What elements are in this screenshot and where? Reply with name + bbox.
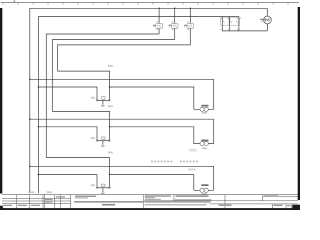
wire motor bottom lead <box>266 24 268 31</box>
coil box K3 <box>102 184 105 187</box>
column tick marks on top border <box>3 2 288 4</box>
terminal X mark left K2 <box>96 140 98 142</box>
fuse-switch F2 body <box>171 24 178 29</box>
wire rung K2 bottom right segment <box>110 127 194 144</box>
label wire number above corner K1 <box>108 65 113 67</box>
label below stub K1 <box>101 105 104 107</box>
circuit breaker Q1 pole body left <box>221 17 230 25</box>
wire F3 bottom lead <box>189 28 191 45</box>
lamp wire K3 <box>194 189 214 191</box>
title block row lines left <box>2 197 71 199</box>
fuse-switch F1 body <box>156 24 163 29</box>
terminal X mark right K1 <box>109 99 111 101</box>
node junction dot V1/K3 <box>29 166 31 168</box>
wire vertical V2 (from L2 corner down) <box>37 17 39 194</box>
terminal X mark right K3 <box>109 187 111 189</box>
node junction dot on L1 at F1 <box>158 8 160 10</box>
wire rung K1 middle <box>30 79 214 109</box>
node junction dot coil drop/K1 <box>109 86 111 88</box>
lamp HK2 circle b <box>204 142 208 146</box>
label -M1 <box>260 19 265 20</box>
wire Q1 pole 3 vertical <box>238 17 240 31</box>
wire motor feed bottom rail <box>222 30 267 32</box>
terminal X mark right K2 <box>109 140 111 142</box>
label below lamp K1 <box>202 112 207 113</box>
faint destination labels at V1 V2 ends <box>28 192 34 193</box>
label left of terminal K1 <box>91 97 95 99</box>
wire bus L1 top horizontal <box>30 7 267 9</box>
title block column lines left <box>16 195 18 209</box>
label below stub K2 <box>101 145 104 147</box>
lamp HK1 circle b <box>204 107 208 111</box>
wire rung K1 top (coil feed) <box>58 71 110 100</box>
lamp HK3 circle b <box>204 188 208 192</box>
wire rung K3 top (coil feed) <box>46 158 109 188</box>
wire rung K3 bottom right segment <box>110 175 194 191</box>
pin number specks F3 <box>188 21 189 22</box>
ground stub K3 <box>102 188 104 192</box>
coil box K2 <box>102 137 105 140</box>
node junction dot V2/K2 <box>38 126 40 128</box>
sheet number marker <box>14 0 16 2</box>
label left of terminal K3 <box>91 184 95 186</box>
fuse-switch F1 drop from L1 <box>158 8 160 23</box>
wire rung K2 bottom left segment <box>38 127 97 141</box>
ground stub K1 <box>102 100 104 104</box>
faint note text row mid sheet <box>151 161 198 163</box>
node junction dot on L1 at F2 <box>174 8 176 10</box>
label F1 designator <box>153 25 156 27</box>
pin labels 1 3 5 <box>220 18 221 19</box>
motor M1 circle <box>264 16 272 24</box>
wire rung K2 middle <box>30 119 214 143</box>
wire rung K3 bottom left segment <box>38 175 97 188</box>
label F3 designator <box>184 25 187 27</box>
wire Q1 pole 1 vertical <box>221 17 223 31</box>
wire vertical V4 (feeds rung 2) <box>52 40 174 112</box>
bottom black scan band <box>0 208 300 210</box>
wire F1 bottom lead <box>158 28 160 34</box>
label below lamp K3 <box>202 193 207 194</box>
terminal rail K2 <box>97 140 110 142</box>
label -HK1 above lamp <box>201 105 208 107</box>
label wire number above corner K3 <box>108 152 113 154</box>
coil box K1 <box>102 97 105 100</box>
wire rung K1 bottom left segment <box>38 87 97 100</box>
fuse-switch F3 drop from L1 <box>189 8 191 23</box>
circuit breaker Q1 pole body right <box>229 17 239 25</box>
title block vertical mid <box>143 195 145 209</box>
wire vertical V3 (feeds rung 3) <box>46 34 159 158</box>
node junction dot coil drop/K3 <box>109 174 111 176</box>
terminal X mark left K1 <box>96 99 98 101</box>
node junction dot V2/K3 <box>38 174 40 176</box>
fuse-switch F3 body <box>187 24 194 29</box>
left edge black scan bar <box>0 8 2 194</box>
terminal rail K3 <box>97 187 110 189</box>
lamp wire K2 <box>194 143 214 145</box>
lamp HK2 circle a <box>200 142 204 146</box>
label -HK3 above lamp <box>201 184 208 186</box>
pin labels 2 4 6 <box>220 29 221 30</box>
fuse-switch F2 drop from L1 <box>174 8 176 23</box>
wire vertical V1 (from L1 corner down to title block) <box>29 8 31 193</box>
Q1 contact marks <box>223 21 238 23</box>
fuse-switch F3 inner mark <box>189 25 192 28</box>
node junction dot coil drop/K2 <box>109 126 111 128</box>
title block small boxes bottom right <box>271 204 273 208</box>
wire Q1 pole 2 vertical <box>229 17 231 31</box>
title block row line right <box>263 195 298 197</box>
title block text blobs <box>45 199 53 200</box>
motor M1 letter M <box>266 19 269 22</box>
node junction dot V2/K1 <box>38 86 40 88</box>
lamp HK1 circle a <box>200 107 204 111</box>
ground stub K2 <box>102 141 104 145</box>
node junction dot on L1 at F3 <box>190 8 192 10</box>
pin number specks F1 <box>157 21 158 22</box>
terminal rail K1 <box>97 99 110 101</box>
fuse-switch F1 inner mark <box>158 25 161 28</box>
wire F2 bottom lead <box>174 28 176 39</box>
right edge black scan bar <box>298 7 300 200</box>
wire motor drop from L1 <box>266 8 268 16</box>
node junction dot V1/K2 <box>29 118 31 120</box>
sheet top border line <box>1 1 299 3</box>
wire rung K2 top (coil feed) <box>52 111 109 140</box>
title block outer top line <box>2 194 298 196</box>
fuse-switch F2 inner mark <box>173 25 176 28</box>
label -HK2 above lamp <box>201 140 208 142</box>
wire rung K1 bottom right segment <box>110 87 194 109</box>
label wire number above corner K2 <box>108 105 113 107</box>
faint wire label rung3 <box>188 169 196 171</box>
node junction dot V1/K1 <box>29 79 31 81</box>
lamp wire K1 <box>194 108 214 110</box>
wire rung K3 middle <box>30 166 214 190</box>
label below lamp K2 <box>202 148 207 149</box>
pin number specks F2 <box>172 21 173 22</box>
wire vertical V5 (feeds rung 1) <box>58 45 191 71</box>
label below stub K3 <box>101 193 104 195</box>
lamp HK3 circle a <box>200 188 204 192</box>
label F2 designator <box>169 25 172 27</box>
wire bus L2 second horizontal <box>38 16 239 18</box>
label left of terminal K2 <box>91 137 95 139</box>
terminal X mark left K3 <box>96 187 98 189</box>
